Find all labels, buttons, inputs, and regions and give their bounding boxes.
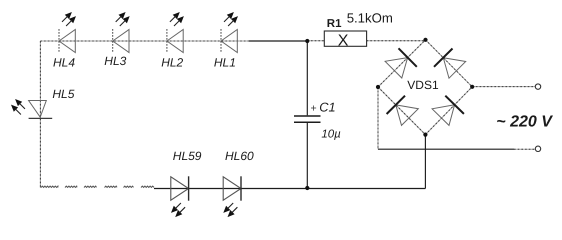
wire: capacitor branch vertical upper <box>306 41 308 115</box>
svg-text:~ 220 V: ~ 220 V <box>496 113 553 130</box>
light arrows HL5 <box>15 99 22 106</box>
bridge edge B-R <box>425 87 472 135</box>
bridge left vertex node <box>376 85 380 89</box>
wire: top bus solid segment HL1 to node A <box>249 40 307 42</box>
LED HL59 <box>171 177 189 200</box>
light arrows HL2 <box>173 12 180 19</box>
bridge diode VD4 (B to R) <box>432 105 455 126</box>
svg-text:HL1: HL1 <box>214 55 236 69</box>
svg-text:HL60: HL60 <box>225 149 254 163</box>
terminal 2 (AC) <box>535 146 540 151</box>
LED HL5 <box>29 101 47 118</box>
wire: bottom bus node B2 to bridge drop <box>307 188 425 190</box>
bridge edge L-B <box>378 87 425 135</box>
LED HL3 <box>113 30 129 53</box>
light arrows HL3 <box>119 12 126 19</box>
svg-text:HL3: HL3 <box>104 54 126 68</box>
wire: left vertical (dotted) from top corner to bottom bus <box>39 41 41 188</box>
light arrows HL60 <box>223 206 230 213</box>
LED HL2 <box>167 30 183 53</box>
bridge edge L-T <box>378 40 426 87</box>
wire: AC line from bridge right vertex to terminal (dotted) <box>472 86 535 88</box>
terminal 1 (AC) <box>535 84 540 89</box>
bridge diode VD1 (L to T) <box>385 58 408 78</box>
wire: bottom bus wavy dashed segments (continuation) <box>41 186 58 187</box>
bridge bottom vertex node <box>423 133 427 137</box>
wire: top bus (dotted, left corner to HL1 area) <box>40 40 250 42</box>
svg-text:VDS1: VDS1 <box>407 78 439 92</box>
svg-text:+: + <box>311 102 317 114</box>
wire: node A to R1 left lead (dotted) <box>307 40 324 42</box>
svg-text:X: X <box>338 33 349 50</box>
svg-text:5.1kOm: 5.1kOm <box>347 10 393 25</box>
bridge top vertex node <box>423 38 427 42</box>
light arrows HL59 <box>171 206 178 213</box>
bridge edge T-R <box>426 40 473 87</box>
wire: R1 right lead to bridge top vertex (dotted) <box>367 40 426 42</box>
resistor R1 body <box>324 31 366 46</box>
svg-text:HL2: HL2 <box>161 55 183 69</box>
wire: capacitor branch vertical lower <box>306 122 308 188</box>
light arrows HL1 <box>227 12 234 19</box>
capacitor C1 plates <box>294 115 321 117</box>
LED HL60 <box>223 177 241 200</box>
wire: bottom bus solid through HL59 HL60 to node B2 <box>154 188 307 190</box>
node B2 (bottom junction) <box>305 186 309 190</box>
node A (top junction) <box>305 39 309 43</box>
wire: vertical from bridge bottom vertex down to bottom bus <box>424 135 426 189</box>
wire: AC line from left vertex drop to right terminal <box>378 148 514 150</box>
svg-text:HL59: HL59 <box>173 149 202 163</box>
bridge diode VD2 (R to T) <box>443 58 465 78</box>
svg-text:C1: C1 <box>319 99 335 114</box>
LED HL4 <box>59 30 75 53</box>
bridge right vertex node <box>470 85 474 89</box>
light arrows HL4 <box>65 12 72 19</box>
svg-text:HL5: HL5 <box>52 87 74 101</box>
svg-text:R1: R1 <box>327 18 342 30</box>
wire: bridge left vertex drop (dashed) <box>377 87 379 149</box>
bridge diode VD3 (B to L) <box>396 105 419 126</box>
svg-text:10µ: 10µ <box>321 129 341 141</box>
svg-text:HL4: HL4 <box>53 56 75 70</box>
LED HL1 <box>221 30 237 53</box>
